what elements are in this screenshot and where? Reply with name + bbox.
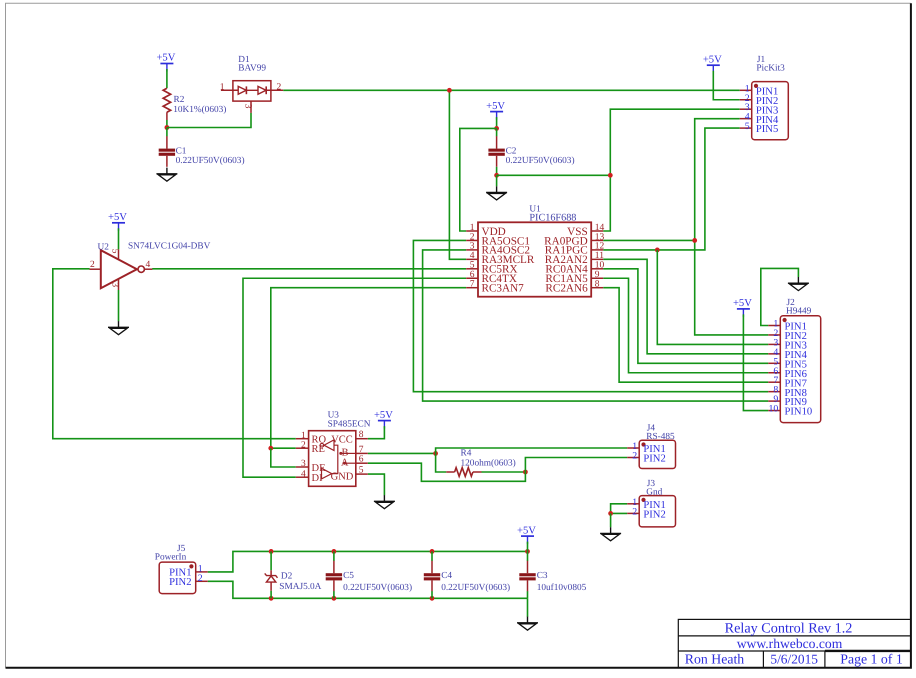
resistor R4 120ohm (446, 448, 515, 476)
wire D2 to gnd rail (270, 591, 272, 599)
svg-text:C4: C4 (441, 571, 452, 581)
svg-text:C3: C3 (537, 571, 548, 581)
connector J1 (PicKit3) (740, 55, 789, 140)
svg-text:PIN2: PIN2 (169, 577, 191, 588)
svg-text:+5V: +5V (108, 212, 127, 223)
wire B to R4 left (436, 453, 447, 472)
+5V supply (power rail) (517, 525, 536, 544)
wire net B to J4 PIN1 (436, 448, 628, 453)
junction C2 top (494, 126, 499, 131)
svg-text:2: 2 (277, 82, 282, 92)
wire +5V to rail (527, 542, 529, 552)
svg-text:2: 2 (198, 573, 203, 584)
junction VSS/C2 (608, 173, 613, 178)
wire U1 pin3 RA4OSC2 to J2 PIN9 (423, 250, 769, 401)
junction gnd rail (332, 596, 337, 601)
wire RE to DE (271, 448, 296, 467)
svg-text:SP485ECN: SP485ECN (328, 420, 371, 430)
wire J3 PIN1 to ground (611, 504, 628, 514)
wire gnd rail to ground symbol (527, 598, 529, 617)
wire J2 PIN1 to ground (761, 268, 799, 325)
svg-text:5: 5 (110, 249, 120, 254)
wire junction to D1 pin3 (167, 113, 251, 128)
capacitor C3 (519, 561, 535, 592)
ground (U2) (108, 321, 129, 335)
svg-text:RC3AN7: RC3AN7 (482, 283, 525, 295)
wire junction to C2 (496, 128, 498, 136)
svg-text:R4: R4 (461, 448, 472, 458)
wire PGC to J2 PIN3 (657, 250, 768, 345)
wire J3 to ground symbol (610, 513, 612, 527)
diode D1 BAV99 (220, 55, 283, 113)
wire +5V to R2 (166, 69, 168, 88)
wire junction down to C1 (166, 128, 168, 137)
svg-text:7: 7 (470, 280, 475, 290)
svg-text:5: 5 (359, 466, 364, 476)
svg-text:Gnd: Gnd (646, 488, 662, 498)
junction C2 bottom (494, 173, 499, 178)
junction R2/C1/D1 (165, 125, 170, 130)
wire rail to D2 (270, 551, 272, 570)
junction +5V rail (269, 549, 274, 554)
wire net PGD: J1 PIN4 to J2 PIN2 (695, 119, 769, 335)
+5V supply (J2) (733, 298, 752, 317)
wire R2 to junction (166, 120, 168, 128)
svg-text:3: 3 (242, 104, 252, 109)
svg-text:PicKit3: PicKit3 (756, 64, 785, 74)
svg-text:8: 8 (595, 280, 600, 290)
+5V supply (J1) (703, 54, 722, 73)
wire net A to J4 PIN2 (525, 458, 627, 473)
svg-text:8: 8 (359, 430, 364, 440)
svg-text:H9449: H9449 (786, 307, 812, 317)
svg-text:Ron Heath: Ron Heath (685, 652, 744, 667)
svg-text:0.22UF50V(0603): 0.22UF50V(0603) (441, 583, 510, 593)
svg-text:C1: C1 (176, 146, 187, 156)
capacitor C2 (488, 136, 504, 167)
junction +5V rail (332, 549, 337, 554)
svg-text:4: 4 (146, 260, 151, 270)
wire C2 to junction (496, 167, 498, 176)
svg-text:0.22UF50V(0603): 0.22UF50V(0603) (506, 156, 575, 166)
svg-text:BAV99: BAV99 (238, 64, 266, 74)
svg-text:10: 10 (769, 404, 779, 415)
svg-text:3: 3 (110, 282, 120, 287)
svg-text:1: 1 (301, 431, 306, 441)
svg-text:6: 6 (359, 455, 364, 465)
ground (C2) (486, 186, 507, 200)
ground (J2 PIN1) (788, 277, 809, 291)
diode D2 SMAJ5.0A (265, 570, 322, 592)
wire rail to C4 (431, 551, 433, 561)
svg-text:10uf10v0805: 10uf10v0805 (537, 583, 587, 593)
junction gnd rail (430, 596, 435, 601)
junction J3 (608, 511, 613, 516)
junction B/R4 (433, 451, 438, 456)
junction RE/DE (268, 446, 273, 451)
svg-text:2: 2 (632, 506, 637, 517)
connector J5 (PowerIn) (155, 544, 208, 594)
+5V supply (R2) (156, 53, 175, 72)
+5V supply (U3) (374, 410, 393, 429)
svg-text:C5: C5 (343, 571, 354, 581)
inverter U2 SN74LVC1G04-DBV (90, 242, 211, 290)
svg-text:U2: U2 (98, 242, 110, 252)
svg-text:PIN2: PIN2 (643, 510, 665, 521)
wire +5V to U1 VDD (460, 128, 497, 231)
svg-text:RE: RE (312, 444, 325, 455)
svg-text:2: 2 (301, 440, 306, 450)
wire U3 GND pin to ground (368, 474, 385, 495)
svg-text:C2: C2 (506, 146, 517, 156)
ground (J3) (600, 527, 621, 541)
ground (C1) (156, 168, 177, 182)
svg-text:2: 2 (90, 260, 95, 270)
svg-text:10K1%(0603): 10K1%(0603) (173, 105, 226, 115)
svg-text:Relay Control Rev 1.2: Relay Control Rev 1.2 (725, 621, 853, 637)
wire U1 pin2 RA5OSC1 to J2 PIN8 (413, 240, 768, 391)
svg-text:SMAJ5.0A: SMAJ5.0A (279, 582, 321, 592)
wire J5 PIN1 +5V rail (208, 551, 528, 572)
svg-text:7: 7 (359, 445, 364, 455)
connector J4 (RS-485) (627, 423, 675, 468)
wire U1 pin11 RA2AN2 to J2 PIN4 (603, 259, 768, 354)
svg-text:PIN5: PIN5 (756, 124, 778, 135)
junction PGD (692, 238, 697, 243)
wire rail to C3 (527, 551, 529, 561)
wire C2 to ground (496, 175, 498, 186)
wire C4 to gnd rail (431, 591, 433, 598)
junction MCLR (447, 88, 452, 93)
IC U3 SP485ECN (296, 411, 371, 487)
wire +5V to J2 PIN10 (743, 314, 768, 410)
wire +5V to J1 PIN2 (713, 71, 739, 100)
svg-text:3: 3 (301, 459, 306, 469)
svg-text:+5V: +5V (486, 101, 505, 112)
capacitor C1 (159, 136, 175, 167)
wire C2 bottom to VSS net (497, 174, 611, 176)
IC U1 PIC16F688 (466, 205, 604, 297)
wire J3 PIN2 to ground (611, 512, 628, 514)
wire J5 PIN2 ground rail (208, 581, 528, 598)
wire net RX: U2 output to U1 pin5 RC5RX (152, 268, 466, 270)
resistor R2 (163, 88, 226, 120)
svg-text:5/6/2015: 5/6/2015 (770, 652, 818, 667)
capacitor C5 (326, 561, 342, 592)
svg-text:PowerIn: PowerIn (155, 552, 187, 562)
svg-text:Page 1 of 1: Page 1 of 1 (840, 652, 903, 667)
wire +5V to U2 pin5 (118, 228, 120, 249)
svg-text:D2: D2 (281, 571, 293, 581)
junction A/R4 (523, 470, 528, 475)
wire net EN: U1 pin7 RC3AN7 to U3 RE (271, 288, 466, 449)
title block (678, 619, 911, 667)
wire net RO: U3 RO to U2 input (53, 269, 296, 439)
svg-text:PIC16F688: PIC16F688 (529, 212, 576, 223)
svg-text:PIN10: PIN10 (785, 407, 813, 418)
wire net VSS: J1 PIN3 to U1 pin14 (603, 109, 740, 231)
wire U1 pin8 RC2AN6 to J2 PIN7 (603, 288, 768, 383)
capacitor C4 (424, 561, 440, 592)
wire U1 pin9 RC1AN5 to J2 PIN6 (603, 278, 768, 373)
svg-text:0.22UF50V(0603): 0.22UF50V(0603) (176, 156, 245, 166)
svg-text:RS-485: RS-485 (646, 432, 675, 442)
wire net TX: U1 pin6 RC4TX to U3 DI (243, 278, 466, 477)
wire U2 pin3 to ground (118, 290, 120, 321)
wire net MCLR down to U1 pin4 RA3MCLR (449, 90, 466, 259)
svg-text:R2: R2 (174, 95, 185, 105)
wire rail to C5 (333, 551, 335, 561)
svg-text:www.rhwebco.com: www.rhwebco.com (737, 636, 843, 651)
junction +5V rail (430, 549, 435, 554)
wire net MCLR: D1 pin2 to J1 PIN1 (283, 89, 740, 91)
wire +5V to U3 VCC (368, 426, 385, 439)
wire +5V to junction (496, 117, 498, 128)
svg-text:+5V: +5V (374, 410, 393, 421)
connector J3 (Gnd) (627, 479, 675, 527)
junction PGC (655, 248, 660, 253)
wire net B: U3 pin7 (368, 452, 436, 454)
svg-text:+5V: +5V (733, 298, 752, 309)
wire C3 to gnd rail (527, 591, 529, 598)
svg-text:0.22UF50V(0603): 0.22UF50V(0603) (343, 583, 412, 593)
junction +5V rail (525, 549, 530, 554)
wire C5 to gnd rail (333, 591, 335, 598)
svg-text:SN74LVC1G04-DBV: SN74LVC1G04-DBV (128, 242, 211, 252)
svg-text:+5V: +5V (156, 53, 175, 64)
svg-text:2: 2 (632, 451, 637, 462)
svg-text:1: 1 (220, 82, 225, 92)
ground (U3) (374, 495, 395, 509)
wire U1 pin13 RA0PGD to PGD net (603, 239, 695, 241)
svg-text:4: 4 (301, 469, 306, 479)
+5V supply (C2) (486, 101, 505, 120)
connector J2 (H9449) (768, 298, 820, 423)
wire U1 pin10 RC0AN4 to J2 PIN5 (603, 269, 768, 364)
svg-text:PIN2: PIN2 (643, 454, 665, 465)
svg-text:5: 5 (745, 121, 750, 132)
svg-text:+5V: +5V (517, 525, 536, 536)
wire net PGC: J1 PIN5 to U1 pin12 (603, 128, 740, 250)
ground (power rail) (517, 617, 538, 631)
+5V supply (U2) (108, 212, 127, 231)
svg-text:120ohm(0603): 120ohm(0603) (461, 458, 516, 468)
wire net A: U3 pin6 A (368, 463, 526, 481)
svg-text:+5V: +5V (703, 54, 722, 65)
junction gnd rail (269, 596, 274, 601)
svg-text:RC2AN6: RC2AN6 (545, 283, 588, 295)
wire R4 right to junction (482, 471, 526, 473)
